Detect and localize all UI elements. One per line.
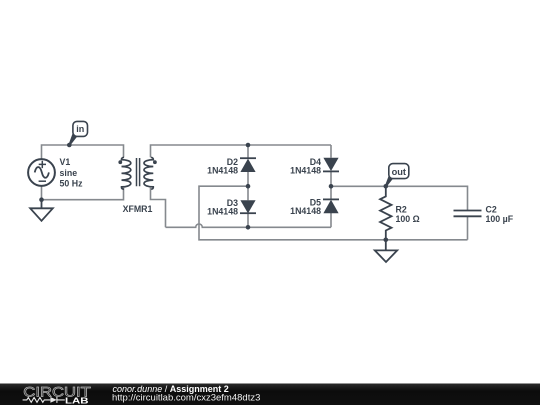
wire D4 branch [330, 145, 332, 186]
wire D3 branch [247, 186, 249, 227]
svg-text:1N4148: 1N4148 [290, 206, 321, 216]
D3 value labels [207, 198, 238, 217]
wire D2 branch [247, 145, 249, 186]
V1 value labels [60, 157, 84, 188]
wire transformer secondary bottom [151, 188, 166, 228]
R2 value labels [396, 205, 420, 224]
C2 value labels [486, 204, 514, 224]
wire D5 branch [330, 186, 332, 227]
wire transformer secondary top to bridge top rail [151, 145, 332, 157]
svg-text:LAB: LAB [65, 395, 89, 405]
diode D5 [323, 199, 339, 213]
node R2 bottom junction [384, 238, 389, 243]
wire mid-left rail to bottom rail [199, 186, 468, 240]
diode D4 [323, 158, 339, 172]
D2 value labels [207, 157, 238, 175]
transformer XFMR1 [118, 157, 156, 189]
label flag in [69, 121, 88, 145]
node bridge mid-right [329, 184, 334, 189]
wire V1 top to transformer primary top [42, 145, 124, 159]
capacitor C2 [454, 211, 482, 217]
svg-text:1N4148: 1N4148 [290, 165, 321, 175]
resistor R2 [380, 186, 391, 240]
wire mid-right rail to C2 [331, 186, 468, 240]
svg-text:100 Ω: 100 Ω [396, 214, 420, 224]
svg-text:in: in [76, 124, 84, 134]
node V1 bottom junction [39, 197, 44, 202]
node in tap [67, 143, 72, 148]
ground (under V1) [30, 200, 53, 221]
wire V1 bottom to transformer primary bottom [42, 186, 124, 200]
diode D3 [240, 200, 256, 213]
svg-text:100 µF: 100 µF [486, 214, 514, 224]
footer bar [0, 384, 540, 405]
svg-text:XFMR1: XFMR1 [123, 204, 153, 214]
svg-text:V1: V1 [60, 157, 71, 167]
ground (under R2) [375, 240, 397, 262]
svg-text:1N4148: 1N4148 [207, 165, 238, 175]
CircuitLab logo wire resistor diode [23, 397, 65, 403]
node bridge mid-left [246, 184, 251, 189]
svg-text:http://circuitlab.com/cxz3efm4: http://circuitlab.com/cxz3efm48dtz3 [112, 393, 260, 404]
wire bridge bottom rail with hop over [166, 224, 332, 227]
svg-text:sine: sine [60, 168, 78, 178]
node out tap [384, 184, 389, 189]
D5 value labels [290, 197, 321, 216]
svg-text:50 Hz: 50 Hz [60, 178, 84, 188]
voltage source V1 [28, 159, 55, 186]
diode D2 [240, 158, 256, 172]
D4 value labels [290, 157, 321, 176]
svg-text:C2: C2 [486, 204, 497, 214]
svg-text:out: out [392, 167, 406, 177]
node bridge top [246, 143, 251, 148]
label flag out [385, 164, 409, 187]
svg-text:1N4148: 1N4148 [207, 207, 238, 217]
node bridge bottom [246, 225, 251, 230]
